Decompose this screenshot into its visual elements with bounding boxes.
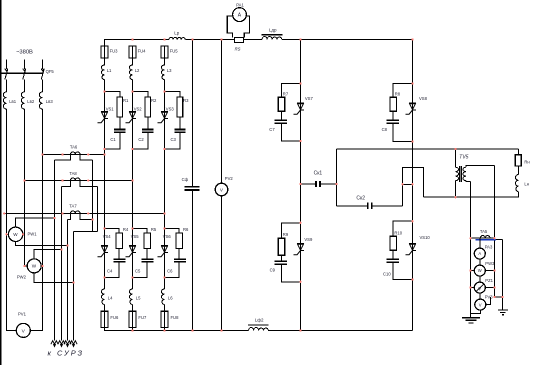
resistor R8 — [390, 91, 401, 111]
svg-text:Lдр: Lдр — [269, 27, 277, 32]
wire VS8 snubber loop — [393, 84, 412, 142]
wire VS7 snubber loop — [281, 84, 300, 141]
svg-text:R2: R2 — [151, 98, 157, 103]
inductor Lv3 — [39, 92, 42, 109]
svg-text:TA5: TA5 — [480, 229, 488, 234]
svg-text:TV5: TV5 — [459, 155, 468, 161]
wire load top line — [337, 148, 519, 150]
wire TA6 secondary left leg — [54, 160, 56, 332]
inductor L5 — [129, 289, 141, 305]
inductor L1 — [101, 58, 112, 80]
capacitor C9 — [270, 261, 288, 272]
thyristor VS9 — [294, 237, 313, 255]
svg-text:L6: L6 — [168, 295, 173, 300]
svg-text:L1: L1 — [107, 68, 112, 73]
inductor Lv1 — [3, 92, 6, 109]
wire TA8 secondary right leg — [97, 186, 99, 231]
wire phase B vertical — [24, 79, 26, 92]
inductor L6 — [161, 289, 173, 305]
svg-text:TA6: TA6 — [70, 144, 78, 149]
svg-text:Cф: Cф — [182, 177, 189, 182]
capacitor C2 — [138, 130, 153, 143]
wire inverter right column main vertical — [412, 40, 414, 331]
capacitor C6 — [167, 259, 186, 273]
svg-text:VS7: VS7 — [305, 96, 314, 101]
page left border — [0, 0, 2, 365]
node load line junctions — [454, 148, 456, 150]
svg-text:PW2: PW2 — [17, 275, 27, 280]
svg-text:TA7: TA7 — [69, 204, 77, 209]
svg-text:L4: L4 — [108, 295, 113, 300]
node inverter column junctions — [299, 82, 301, 84]
svg-text:Cк2: Cк2 — [356, 196, 365, 202]
inductor L2 — [129, 58, 140, 80]
fuse FU8 — [161, 311, 179, 330]
svg-text:L5: L5 — [136, 295, 141, 300]
wattmeter PW2 — [17, 250, 74, 283]
thyristor VS6 — [158, 234, 172, 257]
wire VS5 snubber loop — [133, 229, 148, 278]
svg-text:Lв1: Lв1 — [9, 99, 17, 104]
thyristor VS8 — [406, 96, 428, 114]
svg-text:C1: C1 — [110, 137, 116, 142]
thyristor VS3 — [158, 106, 175, 122]
svg-text:C10: C10 — [383, 271, 391, 276]
svg-text:R6: R6 — [183, 227, 189, 232]
node instrument chain junctions — [469, 237, 471, 239]
fuse FU3 — [101, 46, 118, 58]
capacitor Ck1 (commutating) — [301, 170, 337, 187]
wire VS1 snubber loop — [105, 92, 121, 149]
svg-text:PA3: PA3 — [485, 245, 493, 250]
current transformer TA8 — [25, 171, 133, 187]
current transformer TA5 — [471, 229, 503, 240]
svg-text:VS4: VS4 — [103, 234, 112, 239]
wire common return leg — [73, 232, 75, 332]
inductor Ln (load) — [515, 175, 529, 192]
svg-text:VS5: VS5 — [131, 234, 140, 239]
capacitor Ck2 (commutating) — [337, 196, 403, 209]
wire TV5 secondary right lead down — [495, 165, 503, 297]
ground (TA5 return) — [498, 240, 508, 315]
svg-text:к СУРЗ: к СУРЗ — [48, 349, 85, 358]
svg-text:VS8: VS8 — [419, 96, 428, 101]
svg-text:A: A — [478, 251, 481, 256]
svg-text:C6: C6 — [167, 268, 173, 273]
svg-text:FU6: FU6 — [110, 315, 119, 320]
svg-text:C9: C9 — [270, 267, 276, 272]
svg-text:C8: C8 — [382, 127, 388, 132]
wattmeter PW1 — [7, 218, 68, 246]
svg-text:R5: R5 — [151, 227, 157, 232]
thyristor VS10 — [406, 235, 431, 255]
capacitor C4 — [107, 259, 126, 273]
resistor R5 — [144, 227, 157, 249]
wire VS4 snubber loop — [105, 229, 120, 278]
svg-text:Lв3: Lв3 — [46, 99, 54, 104]
wattmeter PW3 — [471, 261, 496, 276]
capacitor C10 — [383, 259, 399, 276]
wire TA6 secondary right leg — [92, 160, 94, 232]
node rectifier column junctions — [103, 90, 105, 92]
svg-text:FU5: FU5 — [170, 49, 179, 54]
wire phase C down to TA6 — [42, 109, 44, 155]
capacitor C3 — [171, 130, 186, 143]
wire TV5 secondary left lead down — [470, 182, 472, 314]
svg-text:C2: C2 — [138, 137, 144, 142]
wire TA-right legs common bar — [74, 231, 98, 233]
wire PV1 right riser to TA6/PW2 — [30, 155, 42, 331]
svg-text:R3: R3 — [183, 98, 189, 103]
fuse FU7 — [129, 311, 147, 330]
svg-text:PV1: PV1 — [18, 312, 27, 317]
svg-text:W: W — [13, 232, 18, 237]
capacitor C1 — [110, 130, 125, 143]
inductor Lf2 with core (bottom rail) — [248, 318, 269, 331]
svg-text:R8: R8 — [395, 91, 401, 96]
svg-text:VS3: VS3 — [166, 106, 175, 111]
svg-text:FU3: FU3 — [110, 49, 119, 54]
svg-text:VS6: VS6 — [163, 234, 172, 239]
node TA6 wire junctions — [41, 153, 43, 155]
svg-text:VS9: VS9 — [304, 237, 313, 242]
svg-text:R7: R7 — [283, 91, 289, 96]
phase meter PZ1 — [471, 278, 495, 293]
wire VS9 snubber loop — [281, 223, 300, 282]
svg-text:~380В: ~380В — [16, 49, 33, 55]
svg-text:PV2: PV2 — [225, 176, 234, 181]
svg-text:R10: R10 — [394, 230, 402, 235]
svg-text:PW3: PW3 — [485, 261, 495, 266]
wire bottom DC rail — [105, 328, 413, 331]
svg-text:W: W — [478, 268, 482, 273]
svg-text:RS: RS — [235, 46, 241, 51]
resistor Rn (load) — [515, 149, 530, 174]
svg-text:FU7: FU7 — [138, 315, 147, 320]
wire control tap arrows to SURZ — [51, 332, 77, 347]
fuse FU4 — [129, 46, 146, 58]
wire Ck2 to load return riser — [403, 168, 424, 206]
svg-text:C3: C3 — [171, 137, 177, 142]
wire phase C vertical — [42, 79, 44, 92]
inductor Ldr with core (top rail) — [262, 27, 283, 39]
svg-text:PW1: PW1 — [28, 231, 38, 236]
svg-text:QF5: QF5 — [46, 69, 55, 74]
inductor L4 — [101, 289, 113, 305]
wire TA8 secondary left leg — [61, 186, 63, 331]
node TA7 wire junctions — [3, 212, 5, 214]
svg-text:TA8: TA8 — [69, 171, 77, 176]
svg-text:R4: R4 — [123, 227, 129, 232]
thyristor VS7 — [294, 96, 314, 114]
svg-text:Lн: Lн — [524, 182, 529, 187]
inductor Lr (top rail) — [169, 30, 185, 39]
resistor R6 — [176, 227, 189, 249]
svg-text:C4: C4 — [107, 268, 113, 273]
breaker QF5 — [2, 59, 55, 79]
wire phase B down to PW2 — [25, 109, 28, 266]
svg-text:R9: R9 — [283, 232, 289, 237]
resistor R2 — [145, 97, 157, 117]
svg-text:FU8: FU8 — [171, 315, 180, 320]
voltmeter PV1 — [16, 312, 30, 338]
svg-text:L3: L3 — [167, 68, 172, 73]
current transformer TA7 — [4, 204, 165, 220]
node meter wiring junctions — [53, 217, 55, 219]
wire inverter left column main vertical — [300, 40, 302, 331]
wire L5-FU7 — [132, 305, 134, 331]
svg-text:C5: C5 — [135, 268, 141, 273]
ground (instrument chain) — [462, 313, 480, 323]
svg-text:C7: C7 — [269, 127, 275, 132]
thyristor VS5 — [126, 234, 140, 257]
resistor R9 — [278, 232, 289, 256]
resistor R10 — [390, 230, 403, 250]
wire tap to right column — [403, 183, 413, 185]
svg-text:PZ1: PZ1 — [485, 278, 493, 283]
wire top DC rail — [105, 40, 413, 47]
thyristor VS1 — [98, 106, 115, 122]
wire column2 main vertical — [132, 80, 134, 290]
voltmeter PV2 — [215, 40, 233, 331]
current transformer TA6 — [43, 144, 105, 160]
fuse FU6 — [101, 311, 119, 330]
wire L6-FU8 — [164, 305, 166, 331]
node top rail junctions — [131, 38, 133, 40]
svg-text:VS2: VS2 — [134, 106, 143, 111]
resistor R3 — [177, 97, 189, 117]
wire load bottom line — [424, 192, 519, 197]
svg-text:PA1: PA1 — [236, 3, 244, 8]
svg-text:PV3: PV3 — [485, 295, 494, 300]
wire VS3 snubber loop — [165, 92, 181, 149]
svg-text:R1: R1 — [123, 98, 129, 103]
wire phase A down to PV1 — [7, 109, 17, 330]
wire phase A vertical — [6, 79, 8, 92]
wire column1 main vertical — [104, 80, 106, 290]
ammeter PA1 with shunt RS — [227, 3, 249, 52]
thyristor VS2 — [126, 106, 143, 122]
svg-text:VS10: VS10 — [420, 235, 431, 240]
inductor L3 — [161, 58, 172, 80]
capacitor C7 — [269, 120, 287, 132]
resistor R7 — [278, 91, 289, 111]
wire TA7 secondary left leg — [67, 219, 69, 331]
transformer TV5 — [456, 149, 495, 197]
wire VS10 snubber loop — [393, 221, 412, 279]
capacitor C5 — [135, 259, 154, 273]
svg-text:L2: L2 — [135, 68, 140, 73]
thyristor VS4 — [98, 234, 112, 257]
svg-text:VS1: VS1 — [106, 106, 115, 111]
svg-text:Lр: Lр — [174, 30, 180, 35]
capacitor C8 — [382, 120, 399, 132]
node TA8 wire junctions — [23, 179, 25, 181]
inductor Lv2 — [21, 92, 24, 109]
wire Ck bus vertical — [336, 149, 338, 206]
svg-text:V: V — [479, 302, 482, 307]
wire L4-FU6 — [104, 305, 106, 312]
ammeter PA3 — [474, 245, 493, 260]
svg-text:FU4: FU4 — [138, 49, 147, 54]
wire instrument chain vertical — [471, 238, 481, 313]
wire VS2 snubber loop — [133, 92, 149, 149]
svg-text:W: W — [32, 264, 37, 269]
svg-text:Lф2: Lф2 — [255, 318, 264, 323]
resistor R1 — [117, 97, 129, 117]
wire VS6 snubber loop — [165, 229, 180, 278]
voltmeter PV3 — [475, 295, 493, 311]
svg-text:Lв2: Lв2 — [27, 99, 35, 104]
node bottom rail junctions — [131, 329, 133, 331]
wire column3 main vertical — [164, 80, 166, 290]
svg-text:Cк1: Cк1 — [314, 170, 323, 176]
fuse FU5 — [161, 46, 178, 58]
capacitor Cf (filter) — [182, 40, 200, 331]
resistor R4 — [116, 227, 129, 249]
svg-text:Rн: Rн — [524, 159, 530, 164]
